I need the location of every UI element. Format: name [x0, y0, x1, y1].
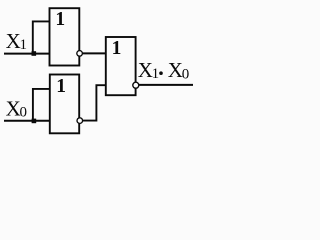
svg-text:0: 0 [182, 66, 190, 82]
wire branch X0 up [33, 89, 50, 121]
svg-text:1: 1 [56, 76, 66, 97]
gate U3 output bubble [133, 82, 139, 88]
wire U1 output to U3 upper input [83, 52, 106, 54]
svg-text:1: 1 [20, 37, 28, 53]
svg-text:X: X [168, 58, 183, 82]
svg-text:1: 1 [55, 9, 65, 30]
wire output [139, 84, 193, 86]
node junction on X0 wire [32, 119, 37, 124]
svg-text:1: 1 [152, 66, 160, 82]
svg-text:X: X [6, 29, 21, 53]
gate U2 output bubble [77, 118, 83, 124]
wire branch X1 up [33, 21, 50, 53]
svg-text:1: 1 [112, 38, 122, 59]
gate U1 box [50, 8, 80, 65]
gate U2 box [50, 75, 79, 134]
svg-text:0: 0 [20, 104, 28, 120]
gate U3 box [106, 37, 136, 95]
gate U1 output bubble [77, 51, 83, 57]
wire input X1 [4, 53, 50, 55]
wire U2 output to U3 lower input [83, 85, 106, 120]
wire input X0 [4, 120, 50, 122]
svg-text:X: X [6, 96, 21, 120]
node junction on X1 wire [32, 51, 37, 56]
